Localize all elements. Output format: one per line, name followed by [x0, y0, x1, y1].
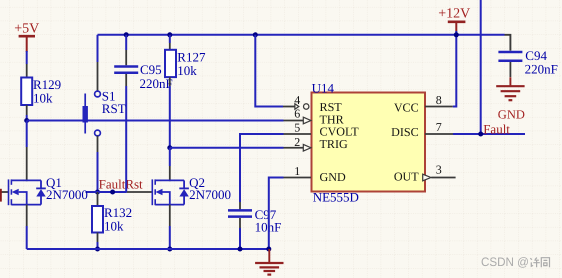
wire THR net horizontal: [27, 120, 284, 122]
pin R129 top: [26, 64, 28, 78]
junction C95 on top rail: [124, 32, 129, 37]
capacitor C94: [498, 48, 557, 77]
wire R129 to node A: [26, 115, 28, 121]
pin Q2 source: [169, 205, 171, 226]
wire C97 to ground rail: [239, 228, 241, 249]
svg-text:NE555D: NE555D: [313, 189, 359, 204]
resistor R127: [165, 50, 206, 79]
wire top rail (+12V net): [98, 34, 505, 36]
pin Q1 drain: [26, 147, 28, 181]
junction Fault on DISC wire: [478, 132, 483, 137]
svg-text:5: 5: [294, 120, 300, 134]
wire Q1 source to ground rail: [26, 226, 28, 249]
svg-text:2: 2: [294, 135, 300, 149]
svg-text:OUT: OUT: [394, 170, 419, 184]
svg-text:+5V: +5V: [14, 22, 39, 37]
pin 7 DISC: [425, 120, 453, 134]
pin C95 top: [125, 50, 127, 65]
transistor Q1 2N7000: [9, 175, 88, 205]
pin C97 top: [239, 202, 241, 211]
svg-text:TRIG: TRIG: [320, 137, 348, 151]
pin C94 bottom: [509, 62, 511, 77]
pin C94 corner: [505, 35, 511, 51]
pin R127 bottom: [169, 77, 171, 86]
capacitor C97: [228, 207, 281, 234]
svg-text:7: 7: [436, 120, 442, 134]
wire rail to C95: [125, 35, 127, 50]
svg-text:FaultRst: FaultRst: [99, 176, 143, 191]
svg-text:RST: RST: [102, 101, 126, 116]
wire R127 to TRIG node: [169, 86, 171, 148]
svg-text:DISC: DISC: [391, 125, 419, 139]
pin Q2 drain: [169, 166, 171, 181]
junction ground rail end: [266, 247, 271, 252]
junction R132 on ground rail: [95, 247, 100, 252]
ground symbol below C94: [496, 77, 524, 100]
junction Q2 source on ground rail: [167, 247, 172, 252]
pin Q1 source: [26, 205, 28, 226]
resistor R129: [21, 77, 61, 106]
junction C97 on ground rail: [238, 247, 243, 252]
wire +12V stem: [455, 31, 457, 35]
op-amp U14 NE555D body: [312, 80, 426, 204]
svg-text:GND: GND: [498, 107, 525, 121]
svg-text:C95: C95: [140, 62, 162, 77]
power +5V: [14, 22, 39, 53]
junction +12V on top rail: [454, 32, 459, 37]
wire node A to Q1 drain: [26, 121, 28, 148]
junction TRIG node: [167, 145, 172, 150]
junction R127 on top rail: [167, 32, 172, 37]
pin S1 bottom: [97, 136, 99, 152]
svg-text:+12V: +12V: [438, 7, 470, 22]
switch S1: [83, 89, 126, 136]
pin 5 CVOLT: [284, 120, 312, 134]
resistor R132: [92, 205, 132, 234]
pin 6 THR: [284, 107, 311, 124]
wire rail to R127: [169, 35, 171, 43]
svg-text:6: 6: [294, 107, 300, 121]
svg-text:1: 1: [294, 164, 300, 178]
wire Fault net vertical: [480, 0, 482, 134]
wire S1 to FaultRst node: [97, 152, 99, 192]
wire Q1 gate stub: [1, 191, 8, 193]
junction RST on top rail: [253, 32, 258, 37]
wire C95 to FaultRst net: [125, 86, 127, 192]
svg-text:2N7000: 2N7000: [46, 187, 88, 202]
pin Q2 gate: [127, 191, 153, 193]
pin S1 top: [97, 62, 99, 91]
svg-text:4: 4: [294, 93, 300, 107]
wire DISC to Fault net: [453, 133, 525, 135]
capacitor C95: [114, 62, 173, 91]
pin C95 bottom: [125, 74, 127, 86]
power +12V: [438, 7, 470, 32]
ground symbol bottom: [255, 249, 283, 275]
svg-text:GND: GND: [320, 170, 346, 184]
pin R132 bottom: [97, 233, 99, 243]
wire TRIG net to pin 2: [170, 147, 284, 149]
pin C97 bottom: [239, 218, 241, 228]
pin 2 TRIG: [284, 135, 311, 151]
junction node A (THR net): [24, 118, 29, 123]
svg-text:8: 8: [436, 93, 442, 107]
svg-text:10k: 10k: [177, 63, 197, 78]
wire rail to S1: [97, 35, 99, 62]
net label cropped at left edge: [0, 189, 2, 202]
svg-text:10k: 10k: [104, 219, 124, 234]
pin 3 OUT: [423, 163, 456, 181]
wire GND pin to ground rail: [269, 178, 284, 250]
svg-text:U14: U14: [312, 80, 335, 95]
svg-text:10k: 10k: [33, 91, 53, 106]
wire VCC to +12V: [453, 35, 457, 107]
pin R132 top: [97, 192, 99, 206]
junction on FaultRst wire: [110, 190, 115, 195]
wire +5V to R129: [26, 51, 28, 64]
svg-text:Fault: Fault: [483, 122, 510, 137]
pin 1 GND: [284, 164, 312, 178]
svg-text:2N7000: 2N7000: [189, 187, 231, 202]
pin 4 RST: [283, 93, 309, 109]
pin R129 bottom: [26, 105, 28, 115]
wire CVOLT to C97: [240, 134, 284, 202]
junction FaultRst node: [95, 190, 100, 195]
svg-text:VCC: VCC: [394, 101, 419, 115]
wire R132 to ground rail: [97, 242, 99, 249]
wire Q2 source to ground rail: [169, 226, 171, 249]
watermark CSDN: [481, 255, 550, 269]
transistor Q2 2N7000: [152, 175, 231, 205]
wire FaultRst net: [86, 191, 127, 193]
pin 8 VCC: [425, 93, 453, 107]
svg-text:3: 3: [436, 163, 442, 177]
svg-text:220nF: 220nF: [525, 61, 558, 76]
svg-text:CSDN @: CSDN @: [481, 255, 529, 269]
wire rail to RST pin: [255, 35, 283, 107]
pin R127 top: [169, 43, 171, 50]
wire ground rail: [27, 248, 269, 250]
wire TRIG node to Q2 drain: [169, 148, 171, 166]
